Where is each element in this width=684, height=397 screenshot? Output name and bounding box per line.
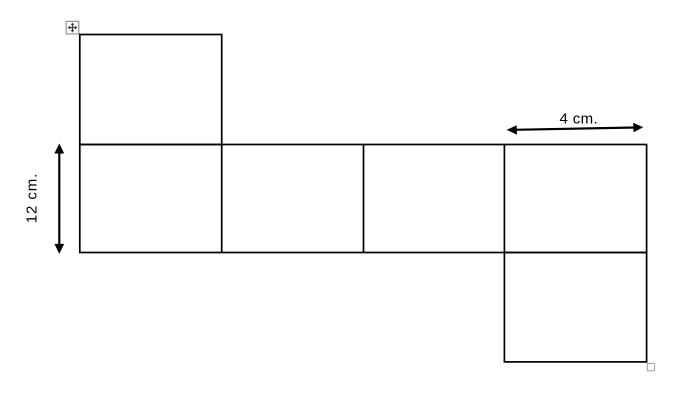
move handle [66, 21, 79, 34]
top square [80, 35, 222, 145]
bottom right square [504, 253, 646, 362]
svg-text:12 cm.: 12 cm. [24, 173, 41, 223]
divider 2 [363, 145, 365, 253]
divider 1 [221, 145, 223, 253]
resize handle [647, 363, 654, 370]
middle row rectangle [80, 145, 647, 253]
horizontal dimension arrow (4 cm) [507, 123, 644, 135]
svg-text:4 cm.: 4 cm. [559, 110, 598, 127]
vertical dimension arrow (12 cm) [54, 144, 64, 254]
divider 3 [503, 145, 505, 253]
